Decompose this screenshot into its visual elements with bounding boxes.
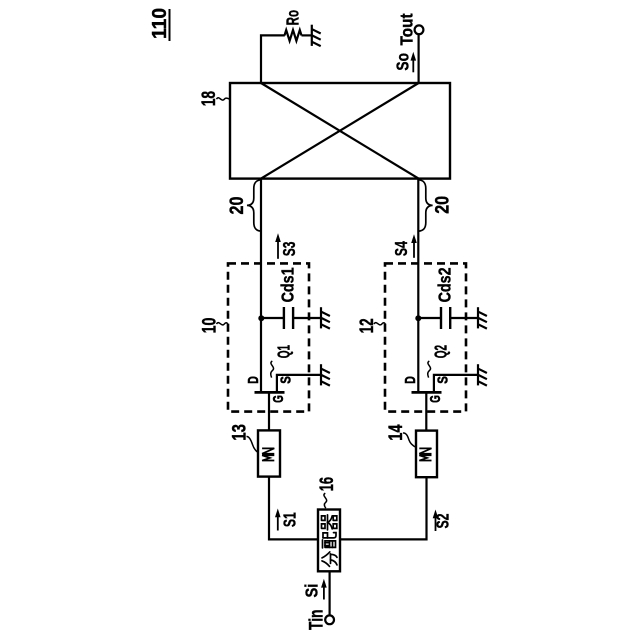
label MN (13) — [262, 448, 274, 460]
label MN (14) — [419, 448, 431, 460]
underline of 110 — [169, 9, 171, 41]
transistor Q2 (channel bar) — [412, 391, 442, 394]
svg-text:110: 110 — [149, 8, 171, 39]
node dot (Q1 drain junction) — [258, 315, 264, 321]
svg-text:S: S — [436, 376, 452, 384]
transistor Q1 (channel bar) — [255, 391, 285, 394]
divider kanji text 分配器 (drawn strokes, rotated) — [322, 515, 338, 567]
leader squiggle for 10 — [217, 323, 229, 325]
svg-text:S4: S4 — [391, 241, 411, 256]
svg-text:G: G — [271, 395, 287, 403]
svg-text:20: 20 — [227, 197, 248, 215]
svg-text:16: 16 — [317, 477, 338, 491]
arrow S4 — [411, 234, 417, 258]
wire (dot to Cds1) — [261, 317, 284, 319]
terminal Tin (circle) — [325, 615, 334, 624]
Q2 source lead — [434, 375, 478, 393]
capacitor Cds2 — [441, 307, 450, 329]
capacitor Cds1 — [284, 307, 293, 329]
leader tilde for Q2 — [428, 361, 431, 378]
brace 20 (left) — [247, 180, 261, 231]
kanji 分 — [322, 552, 337, 567]
terminal Tout (circle) — [415, 25, 424, 34]
arrow Si — [321, 579, 327, 600]
coupler diagonal wire A — [261, 83, 419, 179]
svg-text:Cds1: Cds1 — [277, 267, 297, 302]
arrow S1 — [275, 509, 281, 531]
arrow S2 — [433, 510, 439, 532]
leader tilde for 16 — [324, 493, 327, 508]
svg-text:Tin: Tin — [307, 610, 328, 631]
svg-text:Tout: Tout — [397, 13, 417, 45]
ground (for Q2 source) — [478, 364, 487, 385]
coupler box 18 — [230, 83, 450, 179]
leader tilde for Q1 — [271, 361, 274, 378]
svg-text:D: D — [403, 376, 419, 384]
matching network box MN 13 — [258, 430, 280, 476]
svg-text:So: So — [393, 53, 413, 71]
brace 20 (right) — [419, 180, 433, 231]
kanji 配 — [323, 533, 337, 548]
svg-text:Ro: Ro — [283, 10, 303, 25]
divider box 16 (分配器) — [318, 510, 340, 572]
matching network box MN 14 — [416, 431, 437, 478]
ground (for Ro) — [312, 25, 321, 46]
wire (MN 14 to divider 16) — [340, 477, 427, 539]
svg-text:G: G — [428, 395, 444, 403]
wire (Tout to box 18 top-right port) — [418, 34, 420, 83]
Q2 gate lead (down to MN 14) — [425, 392, 427, 430]
node dot (Q2 drain junction) — [415, 315, 421, 321]
svg-text:S3: S3 — [279, 241, 299, 256]
leader squiggle for 14 — [403, 433, 416, 447]
svg-text:Q2: Q2 — [430, 345, 450, 358]
coupler diagonal wire B — [261, 83, 419, 179]
wire (Cds2 to ground) — [450, 317, 478, 319]
svg-text:Si: Si — [301, 584, 321, 598]
svg-text:Cds2: Cds2 — [435, 267, 455, 302]
wire (corner from Ro to box 18 top-left port) — [261, 35, 285, 83]
Q1 gate lead (down to MN 13) — [268, 392, 270, 430]
svg-text:S: S — [279, 376, 295, 384]
dashed box 10 — [228, 263, 309, 411]
wire (Cds1 to ground) — [293, 317, 321, 319]
wire (dot to Cds2) — [418, 317, 441, 319]
ground (for Cds2) — [478, 307, 487, 328]
ground (for Q1 source) — [321, 364, 330, 385]
ground (for Cds1) — [321, 307, 330, 328]
svg-text:13: 13 — [230, 424, 251, 441]
svg-text:10: 10 — [199, 318, 220, 334]
svg-text:S1: S1 — [280, 512, 300, 527]
wire (Ro to ground) — [302, 34, 312, 36]
svg-text:Q1: Q1 — [273, 345, 293, 358]
wire (divider to Tin terminal) — [329, 571, 331, 615]
leader squiggle for 12 — [374, 323, 386, 325]
wire (MN 13 to divider 16) — [269, 477, 318, 540]
arrow So (signal direction) — [411, 52, 417, 73]
leader squiggle for 13 — [247, 436, 259, 452]
svg-text:D: D — [246, 376, 262, 384]
dashed box 12 — [385, 263, 466, 411]
Q1 source lead — [277, 375, 321, 393]
kanji 器 — [322, 515, 337, 530]
wire (box 18 bottom-left port down to Q1 drain) — [260, 179, 262, 392]
arrow S3 — [275, 233, 281, 259]
svg-text:20: 20 — [432, 196, 453, 214]
resistor Ro — [285, 30, 302, 41]
wire (box 18 bottom-right port down to Q2 drain) — [417, 179, 419, 392]
leader squiggle for 18 — [217, 98, 231, 100]
svg-text:12: 12 — [357, 318, 378, 333]
